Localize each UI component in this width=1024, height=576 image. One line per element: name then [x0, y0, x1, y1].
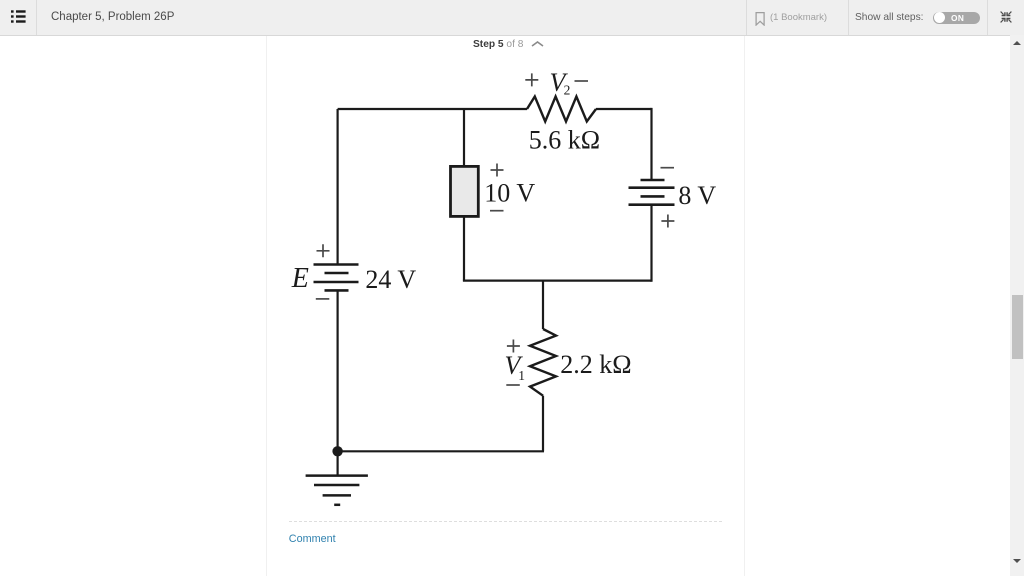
R2 plus sign	[525, 73, 538, 86]
circuit schematic	[280, 60, 730, 520]
R1 plus sign	[507, 340, 520, 353]
svg-text:1: 1	[518, 368, 525, 383]
labels	[291, 68, 717, 383]
content column borders	[266, 36, 267, 576]
wire: top left segment	[338, 108, 527, 110]
wire: R1 branch lower	[542, 396, 544, 452]
svg-text:E: E	[291, 263, 309, 294]
toolbar separator 3	[848, 0, 849, 35]
show all steps label	[855, 0, 924, 35]
wire: middle branch vertical lower	[463, 216, 465, 280]
B2 minus sign	[661, 167, 675, 169]
battery E 24V plates	[314, 265, 359, 291]
R2 minus sign	[575, 80, 589, 82]
collapse icon	[1000, 11, 1012, 23]
resistor R2 5.6k zigzag	[527, 97, 596, 122]
B2 plus sign	[661, 215, 674, 228]
svg-text:10 V: 10 V	[484, 178, 535, 207]
bookmark icon	[755, 12, 766, 26]
element box 10V	[451, 166, 479, 216]
svg-text:2: 2	[564, 83, 571, 98]
wire: left vertical upper	[337, 109, 339, 265]
wire: left vertical lower	[337, 290, 339, 451]
toggle ON	[933, 12, 980, 24]
wire: bottom horizontal	[338, 450, 544, 452]
wire: right vertical upper	[650, 108, 652, 180]
toolbar separator 4	[987, 0, 988, 35]
step collapse chevron	[531, 41, 544, 47]
toolbar separator 2	[746, 0, 747, 35]
svg-text:24 V: 24 V	[365, 265, 416, 294]
wire: middle branch vertical upper	[463, 109, 465, 166]
polarity signs	[316, 73, 675, 385]
scrollbar track	[1010, 35, 1024, 576]
step header	[473, 39, 523, 50]
box plus sign	[491, 164, 504, 177]
svg-text:8 V: 8 V	[678, 181, 716, 210]
wire: middle horizontal	[463, 280, 652, 282]
node junction dot	[332, 446, 342, 456]
wire: right vertical lower	[650, 205, 652, 282]
R1 minus sign	[506, 384, 520, 386]
svg-text:5.6 kΩ: 5.6 kΩ	[529, 126, 600, 155]
E plus sign	[317, 244, 330, 257]
ground stem	[337, 451, 339, 475]
scrollbar down arrow	[1012, 558, 1022, 564]
resistor R1 2.2k zigzag	[530, 329, 556, 396]
box minus sign	[490, 210, 504, 212]
svg-text:2.2 kΩ: 2.2 kΩ	[560, 350, 631, 379]
scrollbar up arrow	[1012, 40, 1022, 46]
scrollbar thumb	[1012, 295, 1023, 359]
dashed separator	[289, 521, 722, 522]
toolbar separator 1	[36, 0, 37, 35]
bookmark label	[770, 0, 827, 35]
list icon	[11, 10, 26, 23]
top toolbar	[0, 0, 1024, 36]
comment link	[289, 533, 336, 545]
toolbar title	[51, 0, 174, 35]
wire: top right segment	[596, 108, 652, 110]
battery B2 8V plates	[629, 180, 675, 205]
ground bars	[306, 476, 368, 505]
wire: R1 branch upper	[542, 281, 544, 329]
E minus sign	[316, 298, 330, 300]
